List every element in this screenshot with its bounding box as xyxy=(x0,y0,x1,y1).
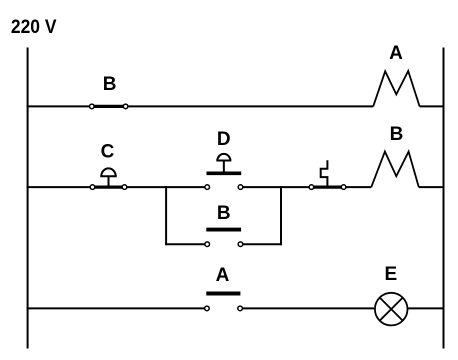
svg-text:B: B xyxy=(390,124,404,145)
right supply rail xyxy=(443,48,445,349)
wire rung3 middle xyxy=(240,307,374,309)
svg-text:B: B xyxy=(103,74,117,95)
pushbutton D (open contact with mushroom head) xyxy=(205,129,243,190)
svg-text:C: C xyxy=(101,142,115,163)
wire parallel branch bottom left xyxy=(165,243,207,245)
svg-text:E: E xyxy=(384,264,397,285)
relay coil B (zigzag) xyxy=(371,124,419,187)
wire rung1 middle xyxy=(126,105,374,107)
wire rung2 after D xyxy=(241,186,312,188)
wire rung2 right xyxy=(419,186,445,188)
relay coil A (zigzag) xyxy=(373,43,419,106)
limit switch contact (closed, with stepped actuator) xyxy=(309,160,346,189)
wire rung2 left xyxy=(27,186,208,188)
contact A3 (open contact, rung 3) xyxy=(205,265,243,311)
wire parallel branch left vertical xyxy=(165,186,167,245)
svg-text:B: B xyxy=(217,203,231,224)
svg-text:A: A xyxy=(216,265,230,286)
wire rung1 right xyxy=(420,105,445,107)
wire parallel branch right vertical xyxy=(280,186,282,245)
svg-text:A: A xyxy=(389,43,403,64)
wire rung3 right xyxy=(407,307,444,309)
wire rung3 left xyxy=(27,307,207,309)
wire rung2 after limit switch xyxy=(344,186,372,188)
contact B1 (closed contact, rung 1) xyxy=(90,74,128,109)
svg-text:220 V: 220 V xyxy=(11,16,57,38)
wire parallel branch bottom right xyxy=(241,243,283,245)
svg-text:D: D xyxy=(217,129,231,150)
left supply rail xyxy=(27,48,29,349)
lamp E (circle with X) xyxy=(375,264,408,325)
pushbutton C (closed contact with mushroom head) xyxy=(90,142,127,190)
contact B2 (open contact, parallel branch) xyxy=(205,203,243,246)
wire rung1 left xyxy=(27,105,92,107)
